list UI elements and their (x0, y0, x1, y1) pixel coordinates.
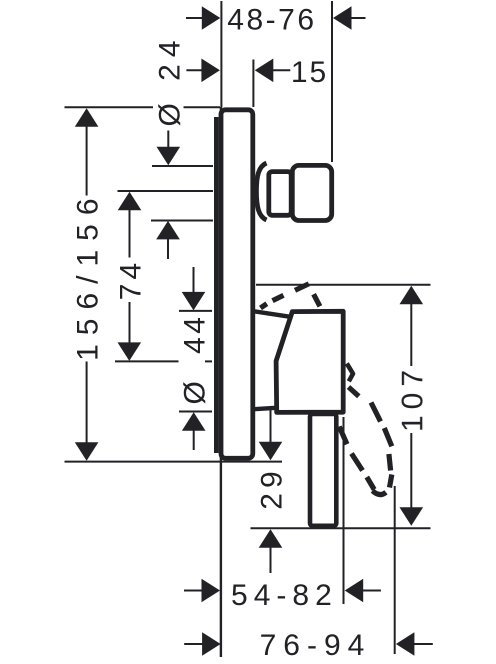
arrow 48-76 left (202, 6, 221, 30)
dashed lever right edge: dash 3 (384, 428, 392, 446)
dim 74 line (129, 210, 131, 258)
arrow 54-82 right (345, 579, 364, 603)
extension line y411 (179, 411, 212, 413)
arrow 107 top (400, 286, 424, 305)
extension line y107 (65, 106, 154, 108)
extension line y461 plate bottom (65, 461, 283, 463)
dashed handle outline: dash 4 (descending) (314, 294, 320, 306)
extension line y166 (152, 165, 213, 167)
extension line dashed lever tip (394, 486, 396, 654)
svg-text:Ø 24: Ø 24 (153, 33, 186, 126)
extension line handle right (343, 417, 345, 604)
dashed lever right edge: dash 2 (371, 403, 381, 422)
svg-text:54-82: 54-82 (231, 579, 338, 612)
arrow 74 top (118, 192, 142, 211)
extension line y361 right (205, 360, 212, 362)
arrow 15 right (255, 59, 273, 83)
dashed lever left edge: dash 1 (339, 427, 347, 445)
svg-text:48-76: 48-76 (227, 3, 316, 36)
pivot nub (347, 364, 353, 382)
arrow 76-94 right (396, 632, 415, 656)
arrow 29 top (down) (259, 442, 283, 461)
dim 15 tails (186, 69, 202, 71)
dim 156/156 line (86, 126, 88, 196)
wall surface line (220, 1, 222, 108)
extension line y311 (179, 310, 212, 312)
arrow Ø44 bottom (up) (182, 412, 206, 431)
extension line y191 (118, 190, 214, 192)
knob neck arc (256, 163, 266, 220)
svg-text:15: 15 (291, 56, 328, 89)
arrow 156/156 bottom (75, 442, 99, 461)
arrow 15 left (201, 59, 220, 83)
dim 48-76 tails (186, 17, 203, 19)
solid handle body (276, 311, 343, 412)
knob mid cylinder (269, 172, 291, 216)
dashed handle outline: dash 3 (295, 284, 309, 291)
svg-text:156/156: 156/156 (72, 189, 105, 360)
dim 76-94 tails (184, 643, 203, 645)
plate (escutcheon) (216, 110, 253, 459)
extension line y284 dashed-handle top (256, 284, 431, 286)
dim 54-82 tails (184, 590, 203, 592)
svg-text:74: 74 (115, 259, 148, 300)
dashed lever left edge: dash 3 (367, 477, 374, 490)
dashed handle outline upper position: dash 1 (261, 304, 267, 308)
arrow 48-76 right (333, 6, 352, 30)
extension line y528 lever bottom (251, 527, 431, 529)
wall line (mounting surface) (0, 0, 1, 1)
extension line y361 left (115, 360, 179, 362)
neck bottom line (254, 408, 277, 409)
lever bar (310, 414, 336, 526)
dashed lever cap right side: dash 5 (390, 475, 392, 488)
extension line knob right (331, 1, 333, 162)
arrow Ø44 top (down) (182, 292, 206, 311)
arrow 156/156 top (75, 108, 99, 127)
wall surface line lower (220, 107, 222, 657)
svg-text:107: 107 (396, 364, 429, 432)
extension line y220 (151, 220, 213, 222)
knob end cap (292, 165, 331, 220)
dashed lever cap bottom dash (373, 491, 387, 495)
svg-text:76-94: 76-94 (260, 629, 372, 662)
arrow 107 bottom (400, 507, 424, 526)
svg-text:29: 29 (256, 466, 289, 509)
dim Ø44 tails (193, 267, 195, 293)
svg-text:Ø 44: Ø 44 (179, 314, 212, 405)
dashed lever right edge: dash 1 (349, 387, 359, 396)
neck top line (254, 311, 290, 316)
dim 29 tails (270, 410, 272, 443)
arrow 74 bottom (118, 342, 142, 361)
dashed handle outline: dash 2 (273, 295, 284, 300)
dim 107 line (410, 304, 412, 367)
arrow 54-82 left (202, 579, 221, 603)
arrow 76-94 left (202, 632, 221, 656)
dashed lever cap right side: dash 4 (389, 454, 391, 471)
dim Ø24 tails (167, 131, 169, 148)
arrow 29 bottom (up) (259, 529, 283, 548)
extension line plate front (252, 60, 254, 108)
dashed lever left edge: dash 2 (352, 454, 363, 471)
arrow Ø24 top (down) (157, 147, 181, 166)
arrow Ø24 bottom (up) (156, 221, 180, 240)
